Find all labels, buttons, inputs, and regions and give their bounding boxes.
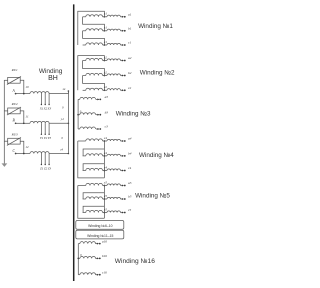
label c16 <box>102 270 107 274</box>
wire divider bus <box>73 4 75 281</box>
terminal c3 <box>96 128 101 130</box>
label 0b <box>61 136 63 140</box>
svg-text:Z3: Z3 <box>48 166 52 170</box>
arrester RU2 <box>4 107 21 115</box>
terminal b1 <box>120 30 125 32</box>
wire winding N5 rung 2 <box>83 206 104 212</box>
node C <box>15 153 30 155</box>
wire winding N1 top link <box>78 11 105 45</box>
svg-text:Y3: Y3 <box>48 136 52 140</box>
terminal a1 <box>120 16 125 18</box>
svg-text:c16: c16 <box>102 270 107 274</box>
wire winding N4 rung 1 <box>83 149 104 156</box>
svg-text:b4: b4 <box>128 152 132 156</box>
svg-text:x4: x4 <box>103 136 107 140</box>
taps X1-X3 <box>41 94 50 106</box>
inductor winding N1 c1 coil2 <box>107 43 121 45</box>
label Winding N2 <box>140 69 175 76</box>
winding BH coil phase B <box>30 121 49 123</box>
svg-text:x4: x4 <box>62 87 66 91</box>
svg-text:x4: x4 <box>103 165 107 169</box>
svg-text:x4: x4 <box>103 151 107 155</box>
label Winding N16 <box>115 258 155 265</box>
svg-text:Winding №16: Winding №16 <box>115 258 155 265</box>
label a5 <box>128 181 132 185</box>
label x4 <box>62 87 66 91</box>
labels Y1 Y2 Y3 <box>40 136 51 140</box>
inductor winding N16 a16 <box>78 242 95 244</box>
label x1 a <box>103 12 107 16</box>
svg-text:a3: a3 <box>105 95 109 99</box>
node x4 b <box>103 155 107 157</box>
wire winding N2 link 2 <box>83 76 105 91</box>
svg-text:x1: x1 <box>103 12 107 16</box>
label x1 b <box>103 26 107 30</box>
node winding N16 neutral <box>77 258 79 260</box>
inductor winding N5 c5 coil2 <box>107 211 121 213</box>
node x1 c <box>103 44 107 46</box>
inductor winding N4 a4 coil2 <box>107 139 121 141</box>
arrester RU3 <box>4 137 21 145</box>
svg-text:BH: BH <box>48 75 58 82</box>
inductor winding N4 a4 coil1 <box>78 139 103 141</box>
svg-text:x2: x2 <box>103 55 107 59</box>
svg-text:10: 10 <box>25 85 29 89</box>
svg-text:b16: b16 <box>102 254 107 258</box>
svg-text:x5: x5 <box>103 207 107 211</box>
label b16 <box>102 254 107 258</box>
svg-text:Winding №5: Winding №5 <box>135 193 170 200</box>
wire winding N2 top link <box>78 56 105 91</box>
label c2 <box>128 86 132 90</box>
labels X1 X2 X3 <box>39 106 52 110</box>
terminal b4 <box>120 155 125 157</box>
label 11 <box>25 115 29 119</box>
label x5 c <box>103 207 107 211</box>
label b5 <box>128 195 132 199</box>
svg-text:Winding №11–15: Winding №11–15 <box>87 234 113 238</box>
label 0 winding N3 <box>80 109 82 113</box>
label x2 b <box>103 70 107 74</box>
inductor winding N2 a2 coil1 <box>83 58 103 60</box>
block Winding N11-15 <box>76 230 124 239</box>
svg-text:0: 0 <box>62 105 64 109</box>
label A <box>12 89 16 93</box>
svg-text:c1: c1 <box>128 41 132 45</box>
svg-text:Winding №6–10: Winding №6–10 <box>88 224 112 228</box>
svg-text:x2: x2 <box>103 85 107 89</box>
wire coil C to neutral <box>49 153 69 155</box>
node x4 a <box>103 140 107 142</box>
inductor winding N3 a3 <box>78 97 96 99</box>
inductor winding N2 b2 coil1 <box>83 73 103 75</box>
inductor winding N2 c2 coil1 <box>83 88 103 90</box>
wire winding N4 junction link <box>103 141 105 178</box>
node x1 a <box>103 16 107 18</box>
wire RU3 to node C <box>20 141 24 153</box>
label y4 <box>60 117 64 121</box>
inductor winding N4 c4 coil2 <box>107 169 121 171</box>
winding BH coil phase A <box>30 92 49 94</box>
svg-text:c4: c4 <box>128 166 132 170</box>
winding BH coil phase C <box>30 152 49 154</box>
label C <box>13 149 16 153</box>
wire neutral line <box>67 91 69 153</box>
svg-text:a1: a1 <box>128 12 132 16</box>
node B <box>15 122 30 124</box>
svg-text:x1: x1 <box>103 26 107 30</box>
node x2 b <box>103 75 107 77</box>
node x2 c <box>103 89 107 91</box>
label Winding N4 <box>139 152 174 159</box>
node x5 c <box>103 212 107 214</box>
inductor winding N4 c4 coil1 <box>83 168 103 170</box>
svg-text:x1: x1 <box>103 40 107 44</box>
label a1 <box>128 12 132 16</box>
wire winding N2 link 1 <box>83 61 105 76</box>
node A <box>15 93 30 95</box>
label 0 <box>62 105 64 109</box>
terminal c16 <box>95 274 100 276</box>
inductor winding N1 b1 coil2 <box>107 29 121 31</box>
inductor winding N2 b2 coil2 <box>107 74 121 76</box>
svg-text:RU1: RU1 <box>11 68 18 72</box>
svg-text:C: C <box>13 149 16 153</box>
label x4 c <box>103 165 107 169</box>
svg-text:b2: b2 <box>128 71 132 75</box>
svg-text:B: B <box>13 119 16 123</box>
svg-text:Winding №1: Winding №1 <box>138 23 173 30</box>
inductor winding N1 b1 coil1 <box>83 29 103 31</box>
svg-text:0: 0 <box>61 136 63 140</box>
inductor winding N5 b5 coil2 <box>107 197 121 199</box>
inductor winding N5 c5 coil1 <box>83 210 103 212</box>
svg-text:RU3: RU3 <box>11 133 18 137</box>
wire winding N1 link 2 <box>83 31 105 45</box>
label x4 a <box>103 136 107 140</box>
svg-text:a2: a2 <box>128 56 132 60</box>
wire winding N5 rung 1 <box>83 193 104 199</box>
svg-text:b5: b5 <box>128 195 132 199</box>
label Winding BH title <box>39 68 63 82</box>
wire winding N3 left link <box>77 99 79 129</box>
terminal a3 <box>96 98 101 100</box>
svg-text:b3: b3 <box>105 110 109 114</box>
svg-text:y4: y4 <box>60 117 64 121</box>
terminal c5 <box>120 212 125 214</box>
terminal b3 <box>96 114 101 116</box>
node x5 a <box>103 185 107 187</box>
label Winding N1 <box>138 23 173 30</box>
wire coil A to neutral <box>49 90 69 93</box>
svg-text:12: 12 <box>25 145 29 149</box>
wire winding N4 rung 2 <box>83 164 104 171</box>
terminal a4 <box>120 140 125 142</box>
inductor winding N16 c16 <box>78 273 95 275</box>
label x1 c <box>103 40 107 44</box>
inductor winding N5 b5 coil1 <box>83 197 103 199</box>
node x1 b <box>103 30 107 32</box>
terminal b5 <box>120 198 125 200</box>
inductor winding N3 b3 <box>78 113 96 115</box>
taps Z1-Z3 <box>41 154 50 166</box>
wire winding N5 outer bracket <box>78 186 105 219</box>
block Winding N6-10 <box>76 221 124 230</box>
svg-text:c2: c2 <box>128 86 132 90</box>
label c5 <box>128 208 132 212</box>
label c3 <box>105 125 109 129</box>
inductor winding N5 a5 coil1 <box>78 183 103 185</box>
svg-text:RU2: RU2 <box>11 102 18 106</box>
wire winding N5 junction link <box>103 186 105 219</box>
svg-text:x5: x5 <box>103 194 107 198</box>
node x4 c <box>103 170 107 172</box>
svg-text:c5: c5 <box>128 208 132 212</box>
wire winding N1 link 1 <box>83 17 105 31</box>
label x5 b <box>103 194 107 198</box>
terminal b16 <box>95 257 100 259</box>
ground arrow <box>2 163 8 167</box>
node winding N3 neutral <box>77 114 79 116</box>
inductor winding N3 c3 <box>78 127 96 129</box>
label B <box>13 119 16 123</box>
label b2 <box>128 71 132 75</box>
svg-text:a5: a5 <box>128 181 132 185</box>
node x5 b <box>103 198 107 200</box>
label x2 a <box>103 55 107 59</box>
label RU1 <box>11 68 18 72</box>
svg-text:Winding №2: Winding №2 <box>140 69 175 76</box>
inductor winding N16 b16 <box>78 256 95 258</box>
inductor winding N1 a1 coil1 <box>83 15 103 17</box>
svg-text:X3: X3 <box>47 106 52 110</box>
terminal c2 <box>120 89 125 91</box>
label z4 <box>59 148 63 152</box>
svg-text:z4: z4 <box>59 148 63 152</box>
wire RU1 to node A <box>20 80 24 93</box>
svg-text:11: 11 <box>25 115 29 119</box>
label RU3 <box>11 133 18 137</box>
inductor winding N2 a2 coil2 <box>107 59 121 61</box>
label x2 c <box>103 85 107 89</box>
inductor winding N4 b4 coil2 <box>107 154 121 156</box>
terminal a2 <box>120 60 125 62</box>
svg-text:Winding №4: Winding №4 <box>139 152 174 159</box>
taps Y1-Y3 <box>41 123 50 135</box>
wire winding N4 outer bracket <box>78 141 105 178</box>
inductor winding N4 b4 coil1 <box>83 154 103 156</box>
svg-text:x5: x5 <box>103 180 107 184</box>
inductor winding N1 a1 coil2 <box>107 15 121 17</box>
svg-text:b1: b1 <box>128 26 132 30</box>
terminal c1 <box>120 44 125 46</box>
inductor winding N1 c1 coil1 <box>83 43 103 45</box>
label Winding N5 <box>135 193 170 200</box>
svg-text:a4: a4 <box>128 137 132 141</box>
label b3 <box>105 110 109 114</box>
label c4 <box>128 166 132 170</box>
wire winding N16 left link <box>77 244 79 275</box>
terminal a16 <box>95 243 100 245</box>
terminal c4 <box>120 170 125 172</box>
svg-text:a16: a16 <box>102 239 107 243</box>
arrester RU1 <box>4 77 21 85</box>
label a4 <box>128 137 132 141</box>
svg-text:x2: x2 <box>103 70 107 74</box>
wire RU2 to node B <box>20 111 24 123</box>
label Winding N3 <box>116 110 151 117</box>
wire coil B to neutral <box>49 123 69 125</box>
svg-text:A: A <box>12 89 16 93</box>
label a16 <box>102 239 107 243</box>
inductor winding N2 c2 coil2 <box>107 89 121 91</box>
svg-text:Winding №3: Winding №3 <box>116 110 151 117</box>
label RU2 <box>11 102 18 106</box>
label b4 <box>128 152 132 156</box>
label 10 <box>25 85 29 89</box>
terminal a5 <box>120 185 125 187</box>
wire ground bus <box>3 80 5 164</box>
label b1 <box>128 26 132 30</box>
label a2 <box>128 56 132 60</box>
terminal b2 <box>120 75 125 77</box>
label 12 <box>25 145 29 149</box>
inductor winding N5 a5 coil2 <box>107 184 121 186</box>
node x2 a <box>103 60 107 62</box>
label c1 <box>128 41 132 45</box>
label 0 winding N16 <box>80 253 82 257</box>
label x4 b <box>103 151 107 155</box>
label x5 a <box>103 180 107 184</box>
svg-text:c3: c3 <box>105 125 109 129</box>
labels Z1 Z2 Z3 <box>40 166 51 170</box>
label a3 <box>105 95 109 99</box>
